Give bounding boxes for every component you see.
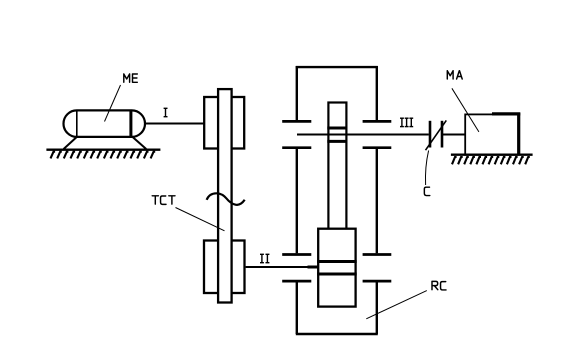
- ground under motor: [46, 150, 160, 159]
- coupling C: [426, 120, 447, 150]
- gear block (big wheel): [318, 229, 355, 307]
- machine MA body: [465, 113, 520, 155]
- leader for TCT: [176, 208, 225, 231]
- leader for C: [425, 151, 428, 186]
- shaft II: [246, 266, 318, 268]
- belt of TCT: [218, 89, 232, 302]
- motor support trapezoid: [64, 137, 147, 149]
- label C: [424, 187, 429, 195]
- label TCT: [152, 196, 175, 205]
- pulley P1 (top): [204, 97, 244, 149]
- ground under MA: [451, 155, 533, 165]
- leader for MA: [452, 88, 479, 132]
- shaft I: [145, 123, 204, 125]
- bearing bars left wall: [282, 121, 311, 281]
- gear column (vertical shaft with pinion): [328, 103, 346, 231]
- leader for RC: [366, 291, 427, 319]
- label ME: [124, 74, 138, 82]
- label MA: [447, 71, 462, 79]
- label III: [400, 118, 413, 126]
- shaft III: [297, 133, 429, 135]
- belt break wave symbol: [207, 193, 245, 205]
- bearing bars right wall: [363, 121, 392, 281]
- reducer housing: [296, 66, 378, 334]
- label RC: [432, 281, 446, 290]
- shaft II end (thick): [308, 266, 318, 269]
- pinion dividers: [327, 127, 347, 130]
- pulley P2 (bottom): [204, 241, 245, 294]
- motor ME body: [64, 110, 146, 137]
- label I: [164, 108, 168, 116]
- leader for ME: [105, 85, 121, 122]
- gear block dividers: [317, 260, 357, 263]
- label II: [260, 254, 269, 262]
